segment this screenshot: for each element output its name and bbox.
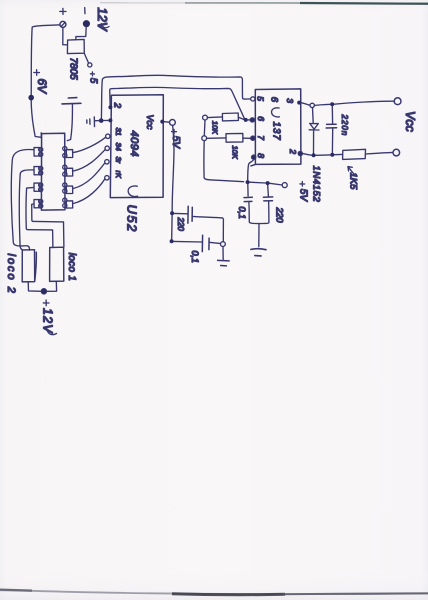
wire IC pin2 to opto output inner loop (110, 87, 245, 118)
wire to resistor 10K b (207, 137, 226, 139)
wire rail to 0,1 cap (171, 215, 173, 239)
IC input pin Q4 (105, 176, 109, 180)
svg-text:220: 220 (274, 207, 284, 223)
relay pin contacts L3 (39, 183, 43, 187)
opto notch (272, 108, 280, 117)
wire 7805 to +5 terminal (84, 53, 88, 63)
capacitor 220 plate B (191, 207, 193, 221)
svg-text:0,1: 0,1 (237, 207, 247, 220)
relay pin square L2 (34, 167, 40, 175)
ground symbol opto (251, 249, 266, 256)
wire to ground symbol (222, 247, 224, 260)
junction dot +12V (41, 289, 47, 295)
relay pin contacts R3 (63, 183, 67, 187)
capacitor above relay block plate A (68, 97, 77, 99)
svg-text:5V: 5V (297, 189, 308, 203)
svg-text:loco 1: loco 1 (66, 253, 77, 281)
IC Vcc pin dot (160, 120, 164, 124)
opto pin2 circle (298, 151, 302, 155)
IC input pin Q3 (105, 160, 109, 164)
ground symbol left bars (87, 117, 95, 127)
label +5 (90, 72, 94, 76)
wire 220 cap to ground circle (192, 216, 223, 241)
junction dot diode low (312, 153, 316, 157)
relay pin square R3 (66, 186, 72, 194)
wire loco2 to +12V junction (28, 282, 42, 291)
svg-text:10K: 10K (231, 146, 240, 160)
label +12V (43, 300, 49, 306)
capacitor 220 opto plates (263, 197, 272, 201)
wire relay L1 to loco2 (11, 149, 34, 250)
wire to 220 cap (174, 212, 187, 214)
wire diode tap to 220n junction (315, 104, 330, 105)
wire loco1 to +12V junction (46, 281, 57, 291)
IC U52 box (110, 95, 163, 198)
capacitor 220n plates (326, 124, 337, 128)
relay pin contacts L4 (39, 199, 43, 203)
svg-text:U52: U52 (125, 205, 140, 233)
wire pin3 to diode tap (301, 103, 310, 106)
resistor 10K a (222, 113, 238, 121)
wire pin2 to 1K5 (303, 154, 343, 156)
wire IC gnd pin to junction (103, 119, 108, 121)
svg-text:10K: 10K (210, 121, 219, 135)
resistor 1K5 (343, 149, 366, 159)
label 1K5 with arrow (348, 167, 355, 176)
ground symbol bars (218, 260, 230, 266)
junction dot gnd (99, 118, 104, 123)
junction dot 220 opto (266, 181, 270, 185)
capacitor 220n stem top (331, 106, 333, 123)
relay block box (41, 133, 65, 210)
svg-text:Vcc: Vcc (403, 111, 417, 133)
capacitor above relay block plate B (62, 102, 81, 105)
regulator 7805 box (67, 39, 84, 53)
loco 2 terminal box (22, 250, 36, 282)
relay pin contacts R2 (63, 165, 67, 169)
wire relay R1 to IC (73, 137, 106, 152)
svg-text:3r: 3r (114, 157, 123, 164)
IC input pin Q2 (105, 146, 109, 150)
wire plus terminal to 7805 (63, 27, 68, 44)
terminal circle minus (84, 21, 90, 27)
relay pin square L3 (34, 183, 40, 191)
wire relay L4 to loco1 (32, 204, 64, 247)
opto pin6 circle (250, 118, 254, 122)
svg-text:6: 6 (256, 116, 266, 121)
opto 6N137 box (251, 89, 301, 166)
output terminal circle (393, 149, 400, 156)
label plus battery (60, 8, 66, 14)
svg-text:7805: 7805 (68, 58, 79, 81)
relay pin square R2 (66, 168, 72, 176)
relay pin contacts R1 (63, 147, 67, 151)
capacitor 220 plate A (187, 206, 189, 223)
capacitor 220n stem bottom (331, 128, 333, 152)
svg-text:137: 137 (271, 122, 282, 141)
opto pin8 circle (252, 155, 256, 159)
junction dot 6V rail (28, 95, 34, 101)
svg-text:31: 31 (114, 128, 123, 136)
junction dot 0,1 cap (170, 239, 174, 243)
svg-text:220: 220 (176, 217, 185, 232)
capacitor 0,1 opto stem (247, 184, 249, 196)
svg-text:3: 3 (285, 98, 295, 103)
wire IC to +5V terminal (164, 121, 169, 124)
svg-text:8: 8 (256, 153, 266, 158)
svg-text:5V: 5V (170, 136, 181, 150)
capacitor 0,1 plate B (208, 238, 210, 250)
svg-text:loco 2: loco 2 (5, 254, 17, 295)
wire relay L3 to loco1 (26, 187, 53, 247)
wire 10K rail (204, 120, 244, 182)
wire capacitor to relay block (67, 104, 72, 141)
loco 1 terminal box (50, 247, 64, 281)
svg-text:1K5: 1K5 (347, 173, 358, 191)
junction dot 220n low (330, 153, 334, 157)
wire caps to ground opto (258, 224, 260, 247)
relay pin square L1 (34, 148, 40, 157)
wire 0,1 cap to ground circle (209, 242, 220, 243)
wire 1K5 to output terminal (366, 152, 393, 154)
svg-text:1N4152: 1N4152 (310, 166, 321, 203)
relay pin contacts L2 (39, 166, 43, 170)
wire +5V rail down (172, 125, 174, 211)
wire relay R4 to IC (73, 179, 105, 204)
IC pin2 dot (108, 105, 112, 109)
wire junction to ground symbol (95, 120, 99, 122)
wire to 0,1 cap (174, 240, 202, 243)
svg-text:6V: 6V (35, 79, 49, 95)
wire to resistor 10K a (207, 116, 222, 119)
label minus battery (84, 8, 86, 14)
terminal circle 10K b (202, 136, 207, 141)
wire resistor b to opto pin7 (243, 137, 250, 139)
svg-text:34: 34 (114, 143, 123, 151)
opto pin5 circle (251, 97, 255, 101)
svg-text:6: 6 (269, 97, 280, 103)
svg-text:5: 5 (88, 78, 99, 84)
junction dot 220n (330, 102, 334, 106)
capacitor 220 opto stem (267, 185, 270, 196)
scanner shadow bottom (0, 590, 428, 594)
svg-text:Vcc: Vcc (145, 115, 155, 131)
capacitor 0,1 opto stem bottom (249, 202, 259, 224)
label +5V (172, 129, 177, 134)
IC notch (128, 186, 137, 197)
relay pin square R1 (66, 150, 72, 158)
Vcc terminal circle (394, 98, 401, 105)
svg-text:2: 2 (111, 102, 122, 109)
terminal circle +5 (88, 63, 92, 67)
+5V terminal circle (170, 120, 176, 126)
capacitor 0,1 plate A (201, 235, 203, 251)
relay pin square R4 (66, 201, 72, 208)
scanner edge line top (100, 2, 428, 4)
+5V terminal circle opto (282, 183, 287, 188)
wire resistor a to junction (238, 117, 243, 119)
wire relay R3 to IC (73, 163, 105, 189)
wire +5V terminal to junctions (250, 182, 283, 185)
junction dot 220 cap (170, 211, 174, 215)
diode tap circle (310, 103, 314, 107)
wire plus terminal to left rail (31, 25, 60, 139)
svg-text:12V: 12V (95, 7, 110, 31)
wire gnd junction to opto pin5 outer loop (101, 75, 250, 118)
wire relay R2 to IC (73, 150, 105, 172)
terminal circle 10K a (203, 115, 208, 120)
svg-text:0,1: 0,1 (190, 251, 200, 264)
IC gnd pin dot (108, 118, 112, 122)
capacitor 220 opto stem bottom (259, 201, 269, 224)
IC input pin Q1 (106, 134, 110, 138)
opto pin3 dot (297, 101, 301, 105)
svg-text:4094: 4094 (128, 131, 140, 157)
svg-text:2: 2 (288, 148, 298, 154)
wire minus terminal to 7805 (76, 27, 86, 40)
svg-text:5: 5 (256, 96, 266, 101)
wire junction to opto pin6 (248, 119, 251, 121)
wire to Vcc terminal (334, 101, 394, 104)
terminal circle plus (60, 21, 66, 27)
svg-text:7: 7 (256, 135, 266, 140)
relay pin contacts L1 (39, 148, 43, 152)
label +5V opto (300, 182, 305, 187)
opto pin7 circle (251, 136, 255, 140)
label +6V (34, 70, 40, 76)
resistor 10K b (226, 133, 243, 142)
wire opto pin8 down to junction (248, 159, 254, 180)
diode 1N4152 (309, 108, 319, 153)
svg-text:220n: 220n (340, 114, 349, 137)
ground terminal circle (221, 242, 226, 247)
junction dot 0,1 opto (246, 180, 250, 184)
relay pin square L4 (34, 200, 40, 208)
wire relay L2 to loco2 (19, 170, 34, 250)
svg-text:rK: rK (114, 171, 123, 179)
junction dot opto pin6 net (244, 118, 248, 122)
capacitor 0,1 opto plates (244, 197, 252, 201)
relay pin contacts R4 (63, 198, 67, 202)
